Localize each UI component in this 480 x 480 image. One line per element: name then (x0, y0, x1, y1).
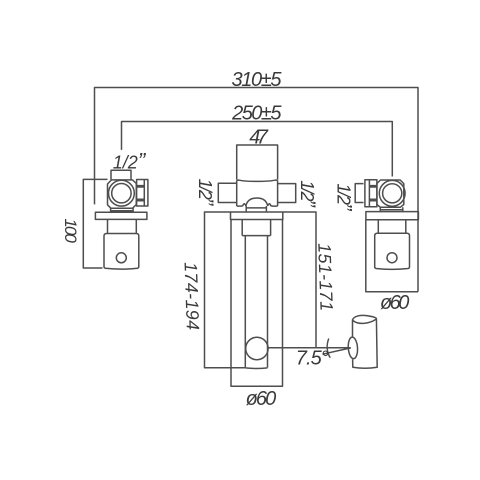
svg-text:174-194: 174-194 (181, 262, 203, 331)
svg-text:1/2”: 1/2” (332, 183, 355, 211)
svg-text:310±5: 310±5 (232, 69, 283, 91)
svg-text:100: 100 (61, 218, 80, 243)
svg-text:1/2”: 1/2” (194, 179, 217, 207)
svg-text:1/2”: 1/2” (113, 148, 147, 173)
svg-text:ø60: ø60 (380, 292, 409, 314)
svg-text:7.5°: 7.5° (296, 348, 329, 370)
svg-text:ø60: ø60 (246, 388, 277, 410)
svg-text:250±5: 250±5 (231, 102, 282, 124)
svg-text:1/2”: 1/2” (296, 180, 319, 208)
svg-text:47: 47 (249, 127, 269, 149)
svg-text:151-171: 151-171 (314, 243, 336, 312)
